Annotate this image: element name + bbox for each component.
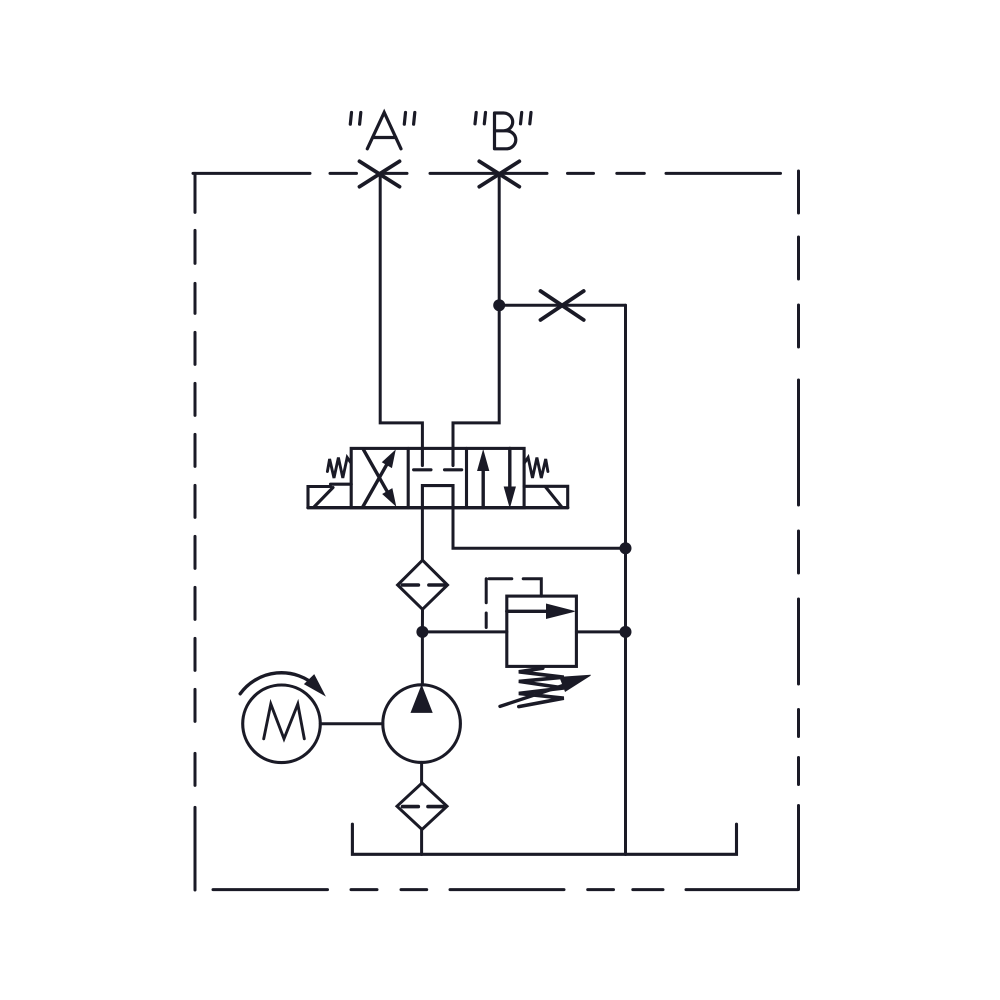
- left box crossed arrow down-right: [364, 450, 390, 495]
- enclosure dashed border bottom: [213, 888, 798, 891]
- relief valve pilot dashed line: [486, 579, 541, 632]
- node junction on B line: [493, 299, 505, 311]
- node junction T/right vertical: [620, 542, 632, 554]
- wire: right vertical drop to tank: [624, 305, 627, 854]
- valve base rail: [308, 506, 568, 509]
- relief valve body: [507, 596, 577, 666]
- wire B: port B to valve port: [453, 173, 499, 448]
- solenoid left: [308, 484, 351, 508]
- relief valve adjustment arrow: [500, 685, 566, 707]
- wire: pump inlet down: [420, 762, 423, 783]
- node junction relief outlet: [620, 626, 632, 638]
- valve body (3 position boxes): [351, 448, 524, 507]
- left box crossed arrow up-right: [363, 462, 389, 507]
- wire: strainer to tank: [420, 830, 423, 855]
- wire: valve T to right vertical: [453, 508, 626, 549]
- right box up arrow: [482, 470, 485, 508]
- motor letter M: [264, 704, 305, 739]
- suction strainer diamond: [397, 783, 447, 830]
- enclosure dashed border top: [193, 172, 798, 175]
- wire A: port A to valve port: [380, 173, 422, 448]
- spring right: [524, 458, 548, 479]
- middle box P-T bridge: [422, 486, 453, 508]
- middle box blocked port stubs: [414, 448, 462, 507]
- pump P1 circle: [383, 685, 461, 763]
- motor rotation arrowhead: [305, 675, 325, 695]
- spring left: [327, 458, 351, 479]
- enclosure dashed border left: [194, 173, 197, 890]
- right box down arrow: [508, 448, 511, 487]
- wire: junction down to pump: [421, 632, 424, 685]
- wire: B junction to right vertical: [499, 304, 625, 307]
- solenoid right: [524, 486, 568, 507]
- electric motor M1 circle: [243, 685, 321, 763]
- label "B": [475, 113, 531, 149]
- port A (plugged X): [360, 161, 400, 186]
- wire: valve P down to filter: [421, 508, 424, 561]
- pump outlet triangle: [411, 686, 432, 713]
- relief valve flow arrow: [507, 610, 550, 613]
- label "A": [350, 112, 415, 148]
- motor-pump shaft: [320, 722, 383, 725]
- relief valve spring: [519, 668, 564, 706]
- port B (plugged X): [479, 161, 519, 186]
- wire: filter to junction: [421, 609, 424, 632]
- enclosure dashed border right: [797, 171, 800, 890]
- wire: relief valve outlet: [576, 630, 625, 633]
- tank reservoir: [352, 824, 736, 854]
- node junction pump outlet: [416, 626, 428, 638]
- plugged X on branch: [541, 291, 584, 320]
- wire: junction to relief valve inlet: [422, 630, 506, 633]
- motor rotation arc: [240, 673, 316, 694]
- pressure filter diamond: [398, 560, 448, 609]
